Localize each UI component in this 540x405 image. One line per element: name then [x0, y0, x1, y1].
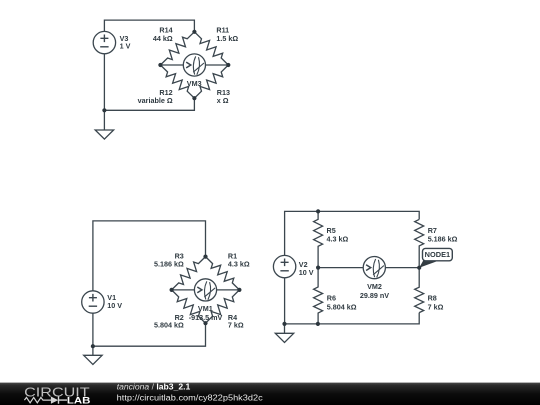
- svg-text:-913.5 mV: -913.5 mV: [189, 313, 223, 322]
- resistor R4: [206, 290, 240, 323]
- wire bottom rail circuit 1: [104, 98, 194, 110]
- voltage source V3: [93, 31, 115, 53]
- node circuit2 bottom: [203, 321, 207, 325]
- svg-text:4.3 kΩ: 4.3 kΩ: [327, 234, 349, 243]
- ground circuit 3: [275, 333, 293, 342]
- junction circuit3 top: [316, 209, 320, 213]
- svg-text:http://circuitlab.com/cy822p5h: http://circuitlab.com/cy822p5hk3d2c: [117, 392, 264, 402]
- node circuit1 left: [158, 63, 162, 67]
- node circuit1 bottom: [192, 96, 196, 100]
- wire mid rail left to VM2: [318, 267, 363, 269]
- svg-text:VM3: VM3: [187, 79, 202, 88]
- svg-text:10 V: 10 V: [299, 268, 314, 277]
- junction circuit2 ground: [91, 344, 95, 348]
- wire junction to ground 2: [92, 346, 94, 355]
- resistor R12: [160, 65, 194, 98]
- wire V1 bottom to junction: [92, 313, 94, 346]
- svg-text:1.5 kΩ: 1.5 kΩ: [216, 34, 238, 43]
- wire bridge left node to VM3: [160, 64, 183, 66]
- svg-text:10 V: 10 V: [107, 301, 122, 310]
- resistor R11: [194, 32, 228, 65]
- wire top rail circuit 3: [285, 211, 420, 255]
- node circuit2 right: [237, 288, 241, 292]
- node circuit2 left: [170, 288, 174, 292]
- logo resistor zigzag: [24, 397, 51, 402]
- wire bridge2 left node to VM1: [172, 289, 195, 291]
- voltmeter VM3: [183, 54, 205, 76]
- node flag NODE1: [419, 248, 452, 267]
- ground circuit 1: [95, 130, 113, 139]
- svg-text:4.3 kΩ: 4.3 kΩ: [228, 259, 250, 268]
- svg-text:R6: R6: [327, 294, 336, 303]
- junction circuit3 bottom-left: [282, 322, 286, 326]
- resistor R6: [314, 268, 323, 324]
- ground circuit 2: [84, 355, 102, 364]
- svg-text:29.89 nV: 29.89 nV: [360, 291, 389, 300]
- svg-text:44 kΩ: 44 kΩ: [153, 34, 173, 43]
- resistor R13: [194, 65, 228, 98]
- resistor R14: [160, 32, 194, 65]
- resistor R8: [415, 268, 424, 313]
- svg-text:1 V: 1 V: [120, 42, 131, 51]
- junction circuit1 ground: [102, 108, 106, 112]
- junction circuit3 bottom: [316, 322, 320, 326]
- wire VM3 to bridge right node: [206, 64, 229, 66]
- voltmeter VM2: [363, 257, 385, 279]
- wire bottom rail circuit 3: [285, 313, 420, 324]
- svg-text:VM1: VM1: [198, 304, 213, 313]
- svg-text:5.186 kΩ: 5.186 kΩ: [154, 259, 184, 268]
- svg-text:5.804 kΩ: 5.804 kΩ: [327, 303, 357, 312]
- svg-text:R8: R8: [428, 294, 437, 303]
- svg-text:7 kΩ: 7 kΩ: [228, 321, 244, 330]
- wire V3 top to bridge top node: [104, 20, 194, 32]
- svg-text:tanciona / lab3_2.1: tanciona / lab3_2.1: [117, 382, 191, 392]
- wire junction to ground: [103, 110, 105, 130]
- svg-text:7 kΩ: 7 kΩ: [428, 303, 444, 312]
- resistor R5: [314, 211, 323, 267]
- svg-text:NODE1: NODE1: [425, 250, 450, 259]
- wire V2 bottom to bottom rail: [284, 278, 286, 324]
- node circuit2 top: [203, 255, 207, 259]
- svg-text:x Ω: x Ω: [217, 96, 229, 105]
- junction circuit3 mid-left: [316, 266, 320, 270]
- voltmeter VM1: [194, 279, 216, 301]
- svg-text:R7: R7: [428, 226, 437, 235]
- voltage source V2: [273, 255, 295, 277]
- svg-text:5.186 kΩ: 5.186 kΩ: [428, 235, 458, 244]
- node circuit1 right: [226, 63, 230, 67]
- resistor R7: [415, 219, 424, 267]
- resistor R3: [172, 257, 206, 290]
- wire VM2 to NODE1: [385, 267, 419, 269]
- wire VM1 to bridge2 right node: [217, 289, 240, 291]
- node circuit1 top: [192, 30, 196, 34]
- svg-text:5.804 kΩ: 5.804 kΩ: [154, 321, 184, 330]
- svg-text:LAB: LAB: [67, 395, 91, 405]
- wire junction to ground 3: [284, 324, 286, 333]
- logo diode symbol: [51, 397, 67, 404]
- svg-text:variable Ω: variable Ω: [138, 96, 173, 105]
- wire bottom rail circuit 2: [93, 323, 206, 346]
- resistor R2: [172, 290, 206, 323]
- svg-text:VM2: VM2: [367, 282, 382, 291]
- resistor R1: [206, 257, 240, 290]
- wire V1 top to bridge top node: [93, 221, 206, 291]
- junction circuit3 mid-right NODE1: [417, 266, 421, 270]
- wire V3 bottom to junction: [103, 54, 105, 111]
- voltage source V1: [82, 291, 104, 313]
